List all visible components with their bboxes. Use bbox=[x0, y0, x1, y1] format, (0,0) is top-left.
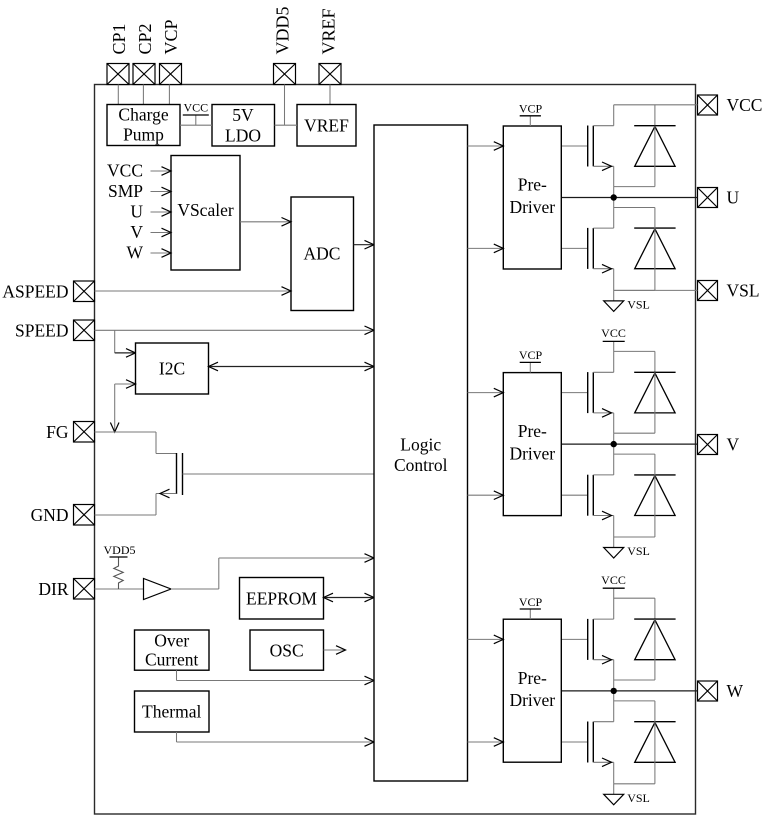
svg-text:VREF: VREF bbox=[318, 8, 338, 54]
svg-text:5V: 5V bbox=[232, 105, 254, 125]
svg-text:DIR: DIR bbox=[38, 579, 68, 599]
svg-text:Pre-: Pre- bbox=[518, 421, 547, 441]
svg-text:VCC: VCC bbox=[727, 95, 763, 115]
svg-text:I2C: I2C bbox=[159, 359, 185, 379]
svg-text:ASPEED: ASPEED bbox=[2, 282, 68, 302]
svg-text:Charge: Charge bbox=[118, 105, 168, 125]
svg-text:GND: GND bbox=[31, 505, 69, 525]
svg-text:Driver: Driver bbox=[509, 443, 555, 463]
svg-text:Pre-: Pre- bbox=[518, 175, 547, 195]
svg-text:VSL: VSL bbox=[727, 281, 760, 301]
svg-text:VScaler: VScaler bbox=[177, 200, 234, 220]
svg-text:U: U bbox=[727, 188, 740, 208]
svg-text:VCP: VCP bbox=[161, 19, 181, 54]
svg-text:W: W bbox=[727, 681, 744, 701]
svg-text:FG: FG bbox=[46, 422, 69, 442]
svg-text:V: V bbox=[727, 435, 740, 455]
svg-text:VCC: VCC bbox=[601, 573, 626, 587]
svg-text:Logic: Logic bbox=[400, 435, 441, 455]
svg-text:VCC: VCC bbox=[183, 100, 208, 114]
svg-text:V: V bbox=[130, 222, 143, 242]
svg-text:VSL: VSL bbox=[627, 544, 650, 558]
svg-text:OSC: OSC bbox=[270, 641, 304, 661]
svg-text:LDO: LDO bbox=[225, 126, 261, 146]
svg-text:CP2: CP2 bbox=[135, 23, 155, 54]
svg-text:VDD5: VDD5 bbox=[104, 543, 136, 557]
svg-text:VCP: VCP bbox=[519, 102, 543, 116]
svg-text:VCC: VCC bbox=[107, 161, 143, 181]
svg-text:W: W bbox=[126, 243, 143, 263]
svg-text:U: U bbox=[130, 202, 143, 222]
svg-text:Driver: Driver bbox=[509, 690, 555, 710]
svg-text:Control: Control bbox=[394, 455, 448, 475]
svg-text:VSL: VSL bbox=[627, 298, 650, 312]
svg-text:CP1: CP1 bbox=[109, 23, 129, 54]
svg-text:Pump: Pump bbox=[123, 125, 164, 145]
svg-text:Thermal: Thermal bbox=[142, 702, 201, 722]
svg-text:SPEED: SPEED bbox=[15, 321, 68, 341]
svg-text:Driver: Driver bbox=[509, 197, 555, 217]
svg-text:VCP: VCP bbox=[519, 348, 543, 362]
svg-text:VCP: VCP bbox=[519, 595, 543, 609]
svg-text:Current: Current bbox=[145, 650, 199, 670]
svg-text:EEPROM: EEPROM bbox=[246, 589, 317, 609]
svg-text:VSL: VSL bbox=[627, 791, 650, 805]
svg-text:ADC: ADC bbox=[304, 244, 341, 264]
svg-text:VREF: VREF bbox=[304, 116, 349, 136]
svg-text:VCC: VCC bbox=[601, 326, 626, 340]
svg-text:SMP: SMP bbox=[108, 181, 143, 201]
svg-text:Over: Over bbox=[154, 631, 189, 651]
svg-text:Pre-: Pre- bbox=[518, 668, 547, 688]
svg-text:VDD5: VDD5 bbox=[272, 7, 292, 55]
